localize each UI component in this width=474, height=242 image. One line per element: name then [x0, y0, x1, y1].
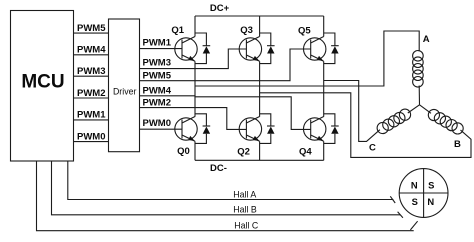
svg-text:PWM2: PWM2 [77, 88, 106, 99]
diode D4 [324, 114, 339, 144]
svg-text:PWM2: PWM2 [143, 98, 172, 109]
wire driver PWM0 to Q0 base [140, 128, 183, 130]
wire Q3 collector to DC+ [259, 16, 261, 37]
wire MCU pin to Hall C [37, 161, 414, 231]
wire driver PWM5 to Q5 base [140, 49, 311, 81]
svg-text:DC-: DC- [210, 163, 227, 174]
svg-text:DC+: DC+ [210, 3, 230, 14]
svg-text:N: N [427, 196, 434, 207]
svg-text:PWM4: PWM4 [77, 45, 106, 56]
inductor coil C [377, 105, 419, 134]
hall B sensor tick [398, 212, 403, 218]
wire phase node column 2 [259, 61, 261, 116]
svg-text:Q2: Q2 [237, 146, 250, 157]
wire phase A to motor coil A [195, 31, 419, 86]
wire MCU PWM2 to driver [74, 97, 109, 99]
svg-text:PWM0: PWM0 [77, 131, 106, 142]
svg-text:Q0: Q0 [177, 146, 190, 157]
wire Q4 emitter to DC- [323, 141, 325, 160]
svg-text:Hall C: Hall C [234, 220, 259, 230]
svg-text:MCU: MCU [21, 72, 64, 93]
transistor Q3 [239, 37, 261, 62]
wire driver PWM3 to Q3 base [140, 49, 247, 69]
svg-text:S: S [412, 196, 418, 207]
transistor Q0 [175, 117, 197, 142]
wire MCU PWM0 to driver [74, 141, 109, 143]
diode D1 [195, 33, 210, 64]
svg-text:PWM1: PWM1 [77, 110, 106, 121]
svg-text:Q3: Q3 [240, 25, 253, 36]
diode D2 [260, 114, 275, 144]
transistor Q4 [304, 117, 326, 142]
svg-text:Hall A: Hall A [233, 189, 256, 199]
wire phase node column 1 [194, 61, 196, 116]
DC+ rail [195, 15, 324, 17]
svg-text:A: A [423, 34, 430, 45]
wire driver PWM2 to Q2 base [140, 108, 247, 130]
MCU U1 box [11, 11, 74, 162]
wire Q1 collector to DC+ [194, 16, 196, 37]
transistor Q5 [304, 37, 326, 62]
transistor Q2 [239, 117, 261, 142]
wire MCU pin to Hall B [52, 161, 401, 215]
inductor coil A [413, 51, 424, 105]
wire MCU PWM5 to driver [74, 32, 109, 34]
svg-text:PWM0: PWM0 [143, 118, 172, 129]
svg-text:N: N [411, 180, 418, 191]
svg-text:S: S [428, 180, 434, 191]
wire MCU PWM4 to driver [74, 54, 109, 56]
wire phase C to motor coil C [324, 81, 380, 142]
hall C sensor tick [410, 221, 417, 230]
svg-text:C: C [369, 143, 376, 154]
hall A sensor tick [390, 196, 395, 203]
wire Q0 emitter to DC- [194, 141, 196, 160]
svg-text:PWM3: PWM3 [77, 66, 106, 77]
svg-text:PWM4: PWM4 [143, 85, 172, 96]
wire Q2 emitter to DC- [259, 141, 261, 160]
transistor Q1 [175, 37, 197, 62]
driver U2 box [109, 19, 140, 152]
svg-text:B: B [454, 139, 461, 150]
diode D0 [195, 114, 210, 144]
svg-text:PWM5: PWM5 [143, 70, 172, 81]
wire driver PWM1 to Q1 base [140, 48, 183, 50]
wire MCU PWM3 to driver [74, 75, 109, 77]
wire MCU pin to Hall A [68, 161, 394, 200]
wire MCU PWM1 to driver [74, 119, 109, 121]
inductor coil B [420, 105, 464, 134]
rotor magnet circle [399, 169, 448, 218]
svg-text:Driver: Driver [113, 87, 137, 97]
svg-text:Q1: Q1 [171, 25, 184, 36]
svg-text:PWM3: PWM3 [143, 58, 172, 69]
wire driver PWM4 to Q4 base [140, 96, 311, 130]
diode D3 [260, 33, 275, 64]
svg-text:Q4: Q4 [299, 146, 312, 157]
diode D5 [324, 33, 339, 64]
svg-text:Q5: Q5 [298, 25, 311, 36]
wire phase node column 3 [323, 61, 325, 116]
DC- rail [195, 159, 324, 161]
wire phase B to motor coil B [260, 93, 471, 158]
svg-text:Hall B: Hall B [233, 205, 257, 215]
svg-text:PWM5: PWM5 [77, 23, 106, 34]
wire Q5 collector to DC+ [323, 16, 325, 37]
svg-text:PWM1: PWM1 [143, 38, 172, 49]
